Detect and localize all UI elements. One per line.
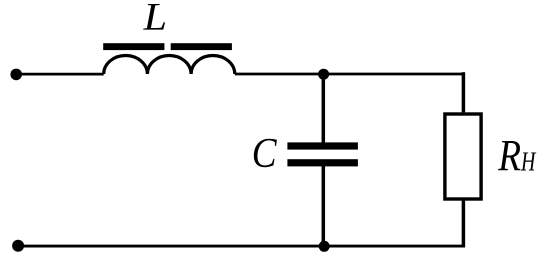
svg-text:R: R	[497, 130, 521, 180]
node B (bottom-left input terminal)	[12, 240, 24, 252]
wire (right branch, top corner down to resistor)	[462, 72, 466, 112]
wire (top rail, input to inductor)	[16, 73, 104, 76]
resistor RH (load rectangle)	[445, 114, 481, 199]
wire (capacitor branch, upper)	[322, 74, 326, 143]
wire (bottom rail)	[18, 245, 465, 248]
wire (top rail, inductor to top-right corner)	[235, 73, 464, 76]
node (bottom junction of capacitor branch)	[319, 241, 330, 252]
wire (right branch, resistor down to bottom corner)	[462, 199, 466, 248]
wire (capacitor branch, lower)	[322, 166, 326, 246]
inductor L (3-hump coil)	[104, 56, 235, 75]
inductor core bar 2	[171, 43, 232, 50]
inductor core bar 1	[103, 43, 164, 50]
node (top junction of capacitor branch)	[318, 69, 329, 80]
svg-text:L: L	[143, 0, 167, 39]
node A (top-left input terminal)	[10, 69, 22, 81]
capacitor C plate 2	[287, 159, 358, 166]
svg-text:C: C	[252, 130, 277, 177]
svg-text:H: H	[520, 146, 537, 177]
capacitor C plate 1	[287, 142, 358, 149]
